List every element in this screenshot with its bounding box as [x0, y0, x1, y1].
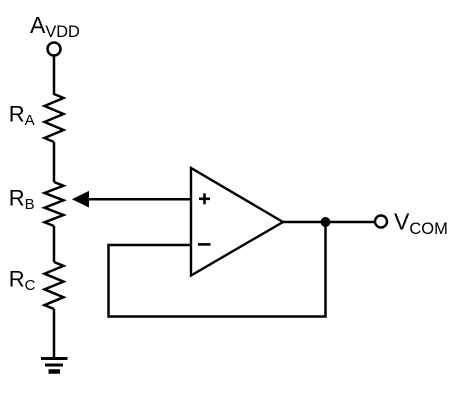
svg-text:RA: RA: [9, 102, 35, 130]
ground: [41, 359, 68, 372]
wire: [283, 221, 375, 224]
junction: [321, 217, 331, 227]
non-inverting input marker +: [199, 193, 210, 204]
wire: [53, 226, 56, 262]
wire: [88, 198, 192, 201]
terminal AVDD: [48, 43, 61, 56]
resistor RA: [45, 94, 64, 142]
svg-text:AVDD: AVDD: [30, 12, 80, 41]
inverting input marker -: [198, 243, 211, 246]
svg-text:RB: RB: [9, 186, 35, 214]
wiper arrow: [73, 192, 89, 207]
wire: [53, 56, 56, 96]
wire: [53, 309, 56, 359]
wire: [53, 142, 56, 182]
resistor RC: [45, 262, 64, 309]
op-amp U1: [191, 168, 283, 276]
svg-text:VCOM: VCOM: [394, 209, 448, 239]
wire: [109, 222, 326, 317]
svg-text:RC: RC: [9, 267, 36, 295]
terminal VCOM: [375, 216, 387, 228]
resistor RB: [45, 182, 64, 226]
